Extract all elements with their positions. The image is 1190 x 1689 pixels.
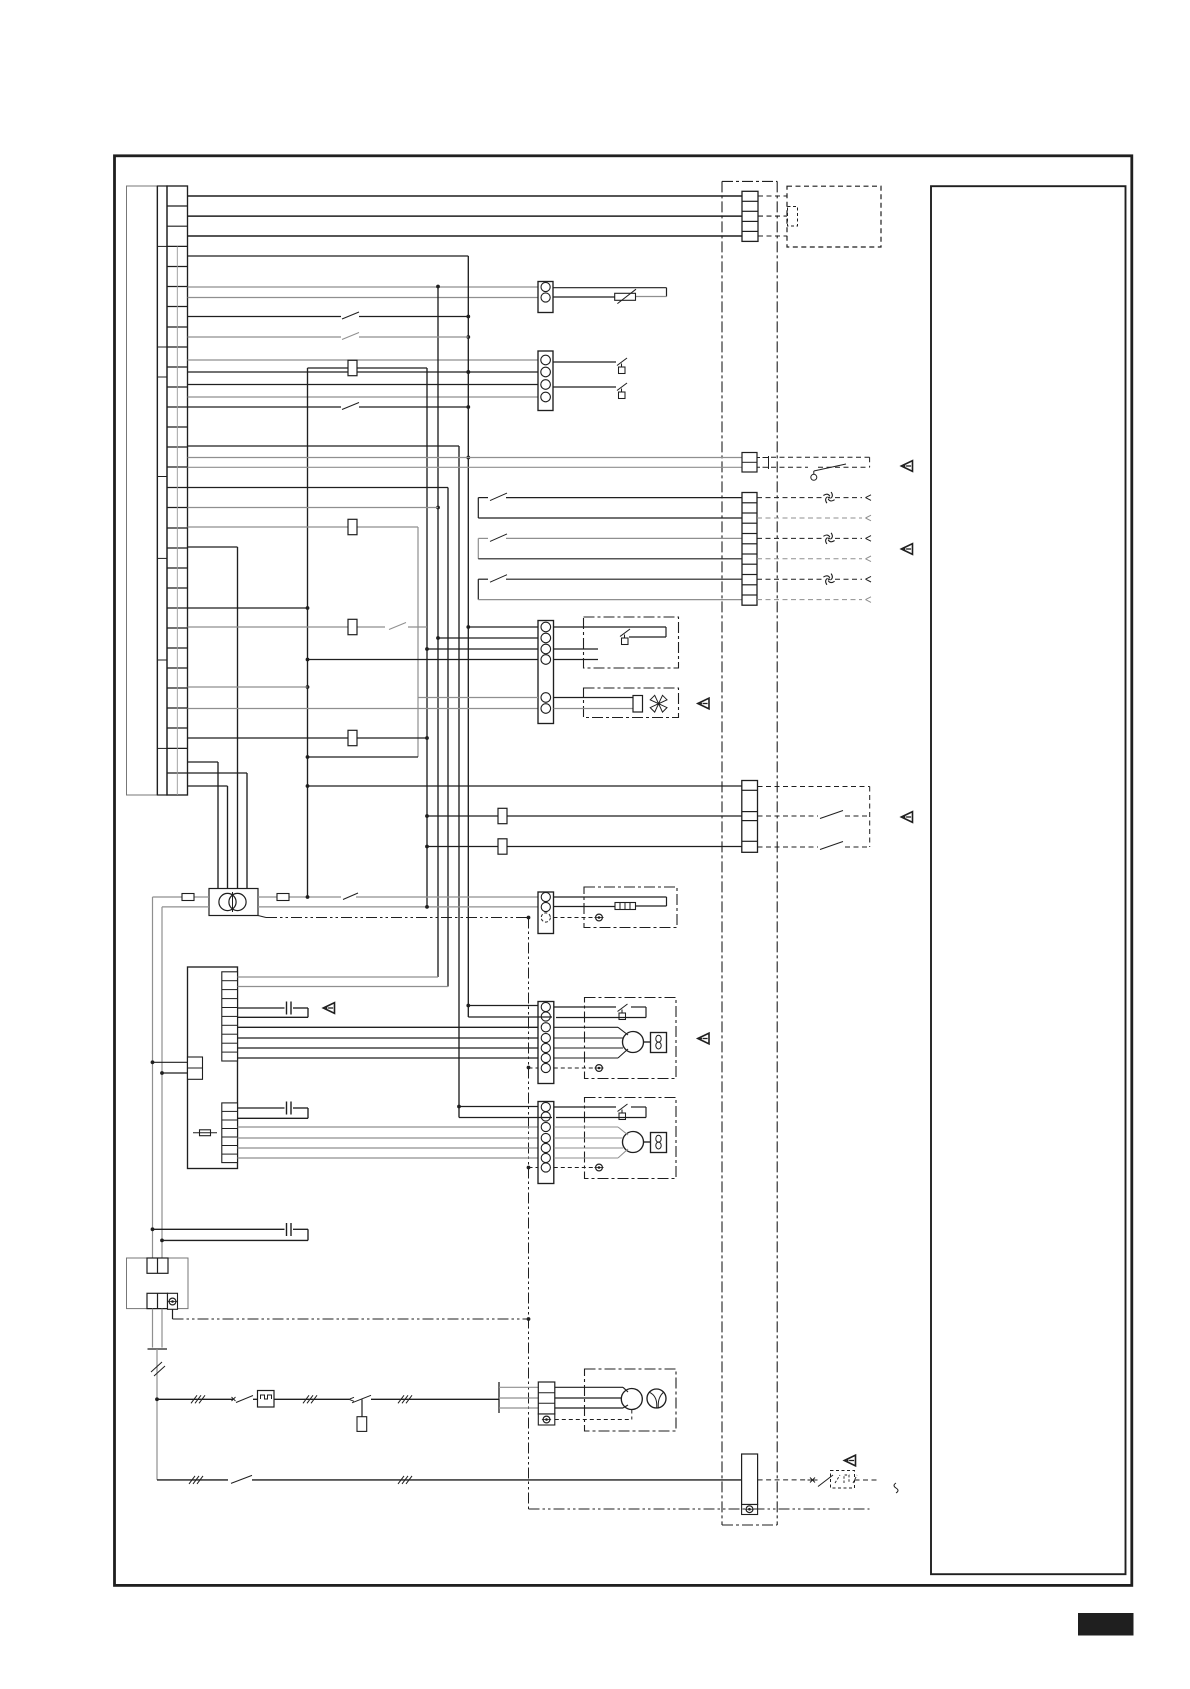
wire PCB2 to CN6 pin6 (gray) <box>238 1157 539 1159</box>
dashed leads TB1 to remote unit box <box>758 195 787 197</box>
dashed box: indoor/remote unit <box>787 186 881 247</box>
CN5 shield to earth <box>529 1067 539 1069</box>
dashed stubs TB2 <box>757 457 765 459</box>
terminal block TB4 (5 cells) <box>742 781 758 853</box>
wire PCB1 to CN2 pin1 <box>188 359 539 361</box>
wire W608 PCB1 to bus V307 <box>188 607 308 609</box>
wire W337 with relay contact (gray) <box>188 336 342 338</box>
wire bus V427 to TB4 pin2 with link R1 <box>427 815 742 817</box>
channel bottom tie <box>722 1524 777 1526</box>
power terminal block TB-P body <box>127 1258 189 1309</box>
CN6 motor leads <box>554 1126 618 1128</box>
wire rail V162 to PCB2 <box>162 1072 188 1074</box>
connector CN6 (7-pin) <box>538 1102 554 1184</box>
relay loop 1 (fan hi) <box>477 498 479 518</box>
dashed inner connector of remote box <box>788 207 798 227</box>
bus V427 <box>426 368 428 907</box>
wire PCB2 to CN5 pin6 <box>238 1057 539 1059</box>
bus V237 to transformer <box>237 547 239 889</box>
limit switch loop <box>554 626 667 628</box>
wire PCB2 to CN6 pin4 (gray) <box>238 1137 539 1139</box>
capacitor C1 loop <box>238 1007 285 1009</box>
wire PCB2 to CN6 pin5 (gray) <box>238 1147 539 1149</box>
connector CN1 (2-pin) <box>538 282 553 313</box>
wire W786 PCB1 to bus V227 <box>188 785 228 787</box>
bus V468 <box>467 256 469 1017</box>
wire PCB2 to CN6 pin3 (gray) <box>238 1126 539 1128</box>
wire W757 tie V307-V418 <box>308 756 419 758</box>
pressure switch S1 lead <box>553 361 616 363</box>
wire bus V468 corner to CN5 pin2 <box>468 1016 552 1018</box>
wire PCB2 to CN5 pin3 <box>238 1026 539 1028</box>
TB-P earth cell <box>168 1293 178 1309</box>
wire PCB1 to TB1 pin1 <box>188 195 743 197</box>
hanging component (capacitor) on feed <box>361 1399 363 1416</box>
crankcase heater symbol (dashed) <box>831 1471 855 1489</box>
terminal block TB3 (11 cells) <box>742 493 757 606</box>
wire bus V468 to CN3 pin1 <box>468 626 538 628</box>
CN6 thermal protector loop <box>554 1106 616 1108</box>
wire W627 fused+switched to bus V427 (gray) <box>188 626 386 628</box>
sensor loop <box>554 896 667 898</box>
wire W762 PCB1 to bus V218 <box>188 761 219 763</box>
wire W487 PCB1 to bus V448 <box>188 487 449 489</box>
capacitor C3 loop across rails <box>153 1228 285 1230</box>
wire bus V418 to CN3 pin5 (gray) <box>418 697 538 699</box>
wire W457 to TB2 pin1 (gray) <box>188 457 743 459</box>
dashed fan unit lines with fan motors <box>757 497 823 499</box>
dashed field wiring with thermostat contact <box>771 456 870 458</box>
dash-dot box: fan motor CN6 <box>585 1098 677 1179</box>
warning triangle 1 <box>901 461 912 472</box>
wire W527 with fuse to bus V418 (gray) <box>188 526 419 528</box>
channel top tie <box>722 180 777 182</box>
wire PCB1 to CN1 pin1 <box>188 286 539 288</box>
dashed heater field line <box>758 1479 808 1481</box>
wire bus V468 to CN5 pin1 <box>468 1005 538 1007</box>
CN5 motor leads <box>554 1026 618 1028</box>
wire PCB1 to TB1 pin5 <box>188 235 743 237</box>
connector CN2 (4-pin) <box>538 351 553 411</box>
single supply lead <box>156 1349 158 1480</box>
wire W446 PCB1 to bus V459 <box>188 445 460 447</box>
dash-dot box: expansion valve EEV <box>584 688 679 718</box>
wire W547 PCB1 to bus V237 <box>188 546 238 548</box>
rail V152 (gray) <box>152 897 154 1258</box>
wire bus V427 to CN3 pin3 <box>427 648 538 650</box>
bus V307 <box>307 368 309 897</box>
wire rail V152 to PCB2 <box>153 1061 188 1063</box>
wire PCB1 to CN2 pin2 <box>188 371 539 373</box>
warning triangle 2 <box>901 544 912 555</box>
pressure switch S2 <box>617 383 627 391</box>
dash-dot box: louver motor with limit switch <box>584 617 679 668</box>
PCB2 upper pin strip <box>222 972 238 1061</box>
PCB2 fuse symbol <box>200 1130 211 1136</box>
CN5 thermal protector loop <box>554 1006 616 1008</box>
wire bus V307 to TB4 pin1 <box>308 785 742 787</box>
cable mark <box>151 1362 162 1372</box>
connector CN4 (2+shield) <box>538 892 554 934</box>
pressure switch S2 lead <box>553 386 616 388</box>
fuse F3 <box>348 730 357 745</box>
terminal block TB2 (2 cells) <box>742 453 757 473</box>
warning triangle 4 <box>901 812 912 823</box>
page number black block <box>1078 1613 1134 1636</box>
heater supply wire W1480 <box>157 1479 228 1481</box>
wire PCB2 to bus V448 (gray) <box>238 986 449 988</box>
bus V438 <box>437 287 439 978</box>
bus V448 <box>447 488 449 987</box>
compressor case earth <box>631 1410 633 1420</box>
capacitor C2 loop <box>238 1107 285 1109</box>
terminal block TB1 (5 cells) <box>742 191 758 241</box>
connector CN5 (7-pin) <box>538 1002 554 1084</box>
thermistor TH1 symbol <box>615 293 636 300</box>
wire W687 PCB1 to bus V307 (gray) <box>188 686 308 688</box>
wire W773 PCB1 to bus V247 <box>188 772 248 774</box>
chain earth line from transformer <box>258 916 266 918</box>
wire W708 PCB1 to CN3 pin6 (gray) <box>188 708 539 710</box>
TB-P input 2-cell <box>147 1258 168 1273</box>
bus V227 to transformer <box>227 786 229 889</box>
limit switch symbol <box>620 629 630 637</box>
PCB1 edge-connector cell strip <box>167 186 188 795</box>
connector CN7 compressor (3+earth) <box>538 1382 555 1414</box>
PCB2 lower pin strip <box>222 1103 238 1163</box>
CN3 pin3 stub <box>554 648 599 650</box>
wire bus V427 to TB4 pin3 with link R2 <box>427 846 742 848</box>
wire transformer secondary to CN4 pin2 (gray) <box>258 906 538 908</box>
wire PCB1 to TB1 pin3 <box>188 215 743 217</box>
wire bus V307 to CN3 pin4 <box>308 659 539 661</box>
dash-dot box: fan motor CN5 <box>585 998 677 1079</box>
EEV coil lead <box>554 697 634 699</box>
dash-dot boundary channel right line <box>776 181 778 1525</box>
link R2 <box>498 839 507 854</box>
wire PCB2 to bus V438 (gray) <box>238 976 439 978</box>
TB-P output 2-cell <box>147 1293 168 1308</box>
wire transformer secondary to CN4 pin1 with fuse F6 and relay contact <box>258 896 341 898</box>
connector CN3 (4+2 pin) <box>538 621 554 724</box>
noise filter <box>258 1391 275 1408</box>
PCB1 relay/terminal column <box>157 186 167 795</box>
rail V162 (gray) <box>161 907 163 1258</box>
warning triangle 6 <box>698 1033 709 1044</box>
terminal block TB5 <box>742 1454 758 1505</box>
wire bus V438 to CN3 pin2 <box>438 637 538 639</box>
dash-dot box: compressor <box>585 1369 677 1431</box>
EEV valve symbol (4-blade star) <box>650 695 667 712</box>
compressor motor M <box>621 1389 642 1410</box>
compressor motor leads <box>555 1386 623 1388</box>
wire bus V459 corner to CN6 pin2 <box>459 1117 552 1119</box>
wire W316 with relay contact <box>188 316 342 318</box>
chain earth vertical <box>528 918 530 1510</box>
bus V418 (gray) <box>417 527 419 757</box>
earth drop to chain line <box>172 1309 174 1319</box>
relay loop 2 (fan med) <box>477 538 479 558</box>
legend box (blank notes area) <box>931 186 1126 1574</box>
chain earth line to vertical <box>173 1318 529 1320</box>
warning triangle 7 <box>844 1455 855 1466</box>
fuse F1 <box>348 360 357 375</box>
PCB1 main control board body <box>127 186 158 795</box>
CN6 motor <box>623 1132 644 1153</box>
fuse F2 <box>348 619 357 634</box>
sensor element <box>615 903 636 910</box>
warning triangle 3 <box>698 698 709 709</box>
CN6 shield to earth <box>529 1167 539 1169</box>
continuation squiggle <box>894 1483 898 1493</box>
compressor feed wire W1399 <box>157 1398 233 1400</box>
dash-dot box: discharge sensor <box>584 887 677 928</box>
CN5 motor <box>623 1032 644 1053</box>
warning triangle 5 <box>323 1003 334 1014</box>
thermostat symbol <box>811 474 817 480</box>
dash-dot boundary channel left line <box>721 181 723 1525</box>
PCB2 power board body <box>188 967 238 1169</box>
link R1 <box>498 808 507 823</box>
bus V459 <box>458 446 460 1118</box>
wire W467 to TB2 pin2 (gray) <box>188 466 743 468</box>
compressor leads (gray) <box>499 1386 538 1388</box>
wire PCB2 to CN5 pin5 <box>238 1047 539 1049</box>
shield drain to earth <box>554 917 595 919</box>
wire transformer lower-left to rail V162 <box>162 906 209 908</box>
dashed field lines with remote contacts <box>758 786 870 788</box>
wire PCB1 to CN2 pin3 <box>188 384 539 386</box>
PCB2 input connector <box>188 1057 203 1079</box>
cable junction bar <box>498 1382 500 1413</box>
wire bus V459 to CN6 pin1 <box>459 1106 538 1108</box>
wire W368 fused tie V307-V427 <box>308 367 428 369</box>
pressure switch S1 <box>617 358 627 366</box>
wire W407 with relay contact <box>188 406 342 408</box>
bus V247 to transformer <box>246 773 248 889</box>
supply drop wires below TB-P <box>152 1309 154 1348</box>
bus V218 to transformer <box>217 762 219 889</box>
TB5 earth cell <box>742 1505 758 1515</box>
fuse F4 <box>348 519 357 534</box>
thermistor TH1 loop <box>553 287 667 289</box>
CN3 pin4 stub <box>554 659 599 661</box>
outer border frame <box>115 156 1132 1586</box>
wire PCB1 to CN1 pin2 <box>188 297 539 299</box>
EEV coil <box>633 696 643 713</box>
compressor pump symbol <box>647 1389 666 1408</box>
relay loop 3 (fan lo) <box>477 579 479 599</box>
transformer T1 <box>209 889 258 916</box>
wire W738 fused PCB1 to bus V427 <box>188 737 428 739</box>
wire W507 PCB1 to bus V438 (gray) <box>188 507 439 509</box>
chain earth bottom run <box>529 1508 870 1510</box>
wire PCB2 to CN5 pin4 <box>238 1037 539 1039</box>
wire W256 PCB1 to bus V468 <box>188 255 469 257</box>
wire PCB1 to CN2 pin4 <box>188 396 539 398</box>
wire transformer to left rail with fuse F5 <box>153 896 210 898</box>
